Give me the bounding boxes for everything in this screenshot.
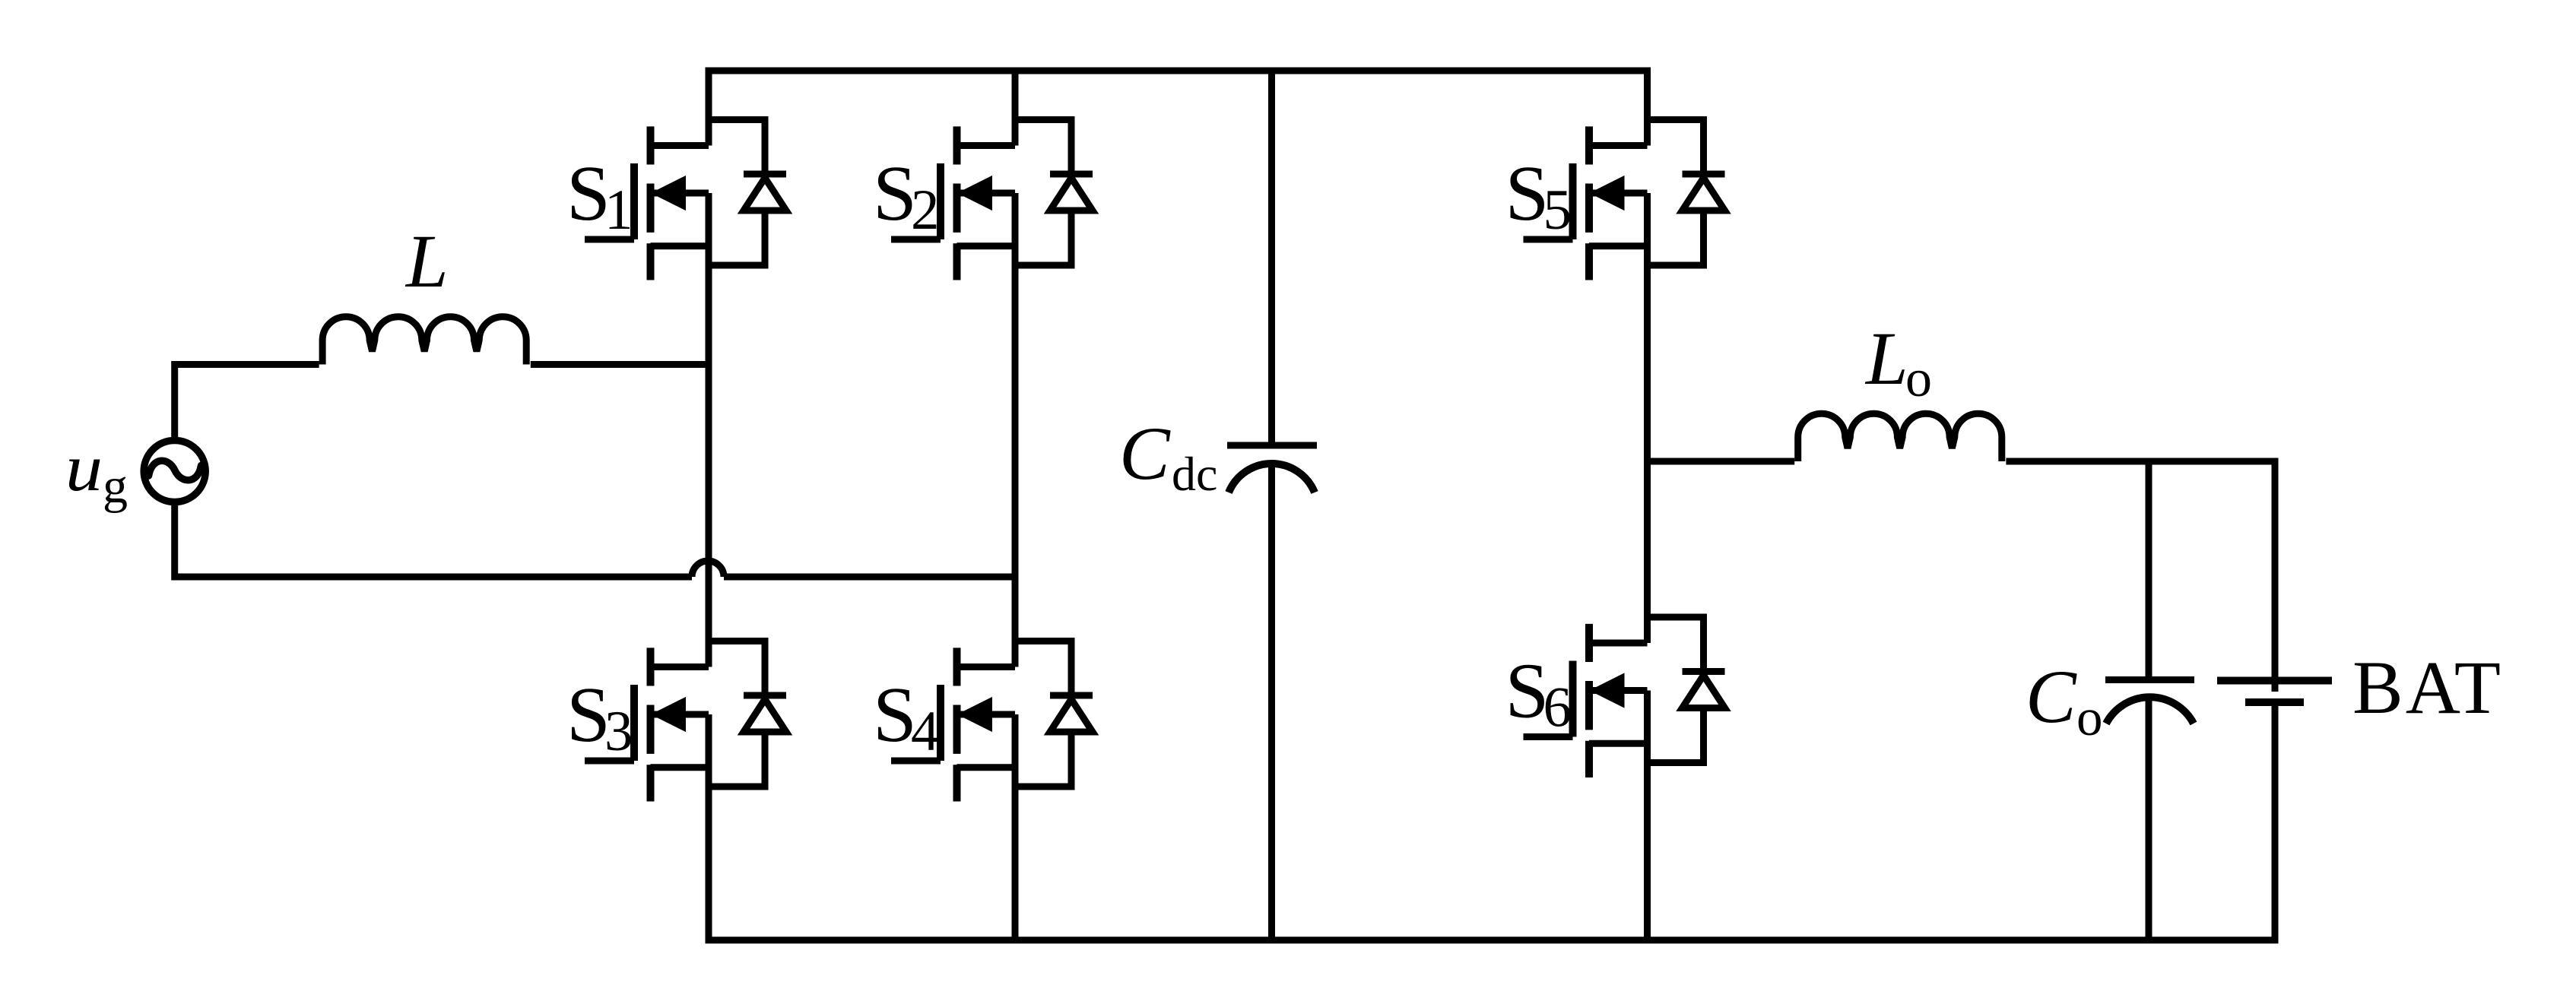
diode of S1 bottom connection bbox=[709, 211, 765, 265]
wire Co top connection bbox=[2146, 461, 2152, 683]
diode of S5 top connection bbox=[1648, 120, 1704, 175]
wire ac source bottom bbox=[175, 501, 692, 577]
diode of S3 bottom connection bbox=[709, 732, 765, 787]
ac source ug circle bbox=[144, 441, 205, 502]
diode of S6 cathode bar bbox=[1683, 668, 1725, 675]
transistor S4 gate bar bbox=[937, 685, 944, 761]
transistor S3 drain lead bbox=[651, 663, 709, 670]
wire S6 source to bottom bus vertical bbox=[1644, 691, 1651, 941]
battery BAT short plate bbox=[2245, 698, 2304, 706]
diode of S2 triangle bbox=[1050, 178, 1093, 211]
svg-text:3: 3 bbox=[604, 700, 633, 763]
wire S5/S6 midpoint to inductor Lo bbox=[1648, 458, 1795, 465]
transistor S4 gate lead bbox=[891, 758, 941, 765]
diode of S1 cathode bar bbox=[744, 171, 786, 178]
transistor S1 gate lead bbox=[585, 236, 634, 243]
wire S5 drain from bus bbox=[1644, 68, 1651, 146]
wire BAT top connection bbox=[2275, 461, 2279, 692]
wire S2 drain from bus bbox=[1012, 71, 1019, 146]
transistor S5 channel segments bbox=[1585, 126, 1593, 280]
inductor L bbox=[322, 317, 526, 365]
transistor S6 gate lead bbox=[1524, 733, 1573, 740]
transistor S6 source lead bbox=[1589, 740, 1648, 747]
capacitor Co curved plate bbox=[2106, 697, 2194, 724]
svg-text:6: 6 bbox=[1543, 676, 1572, 739]
diode of S1 top connection bbox=[709, 120, 765, 175]
svg-text:o: o bbox=[1905, 350, 1932, 408]
transistor S5 gate bar bbox=[1569, 163, 1577, 239]
wire hop to S2/S4 midpoint node B bbox=[724, 574, 1019, 581]
transistor S5 gate lead bbox=[1524, 236, 1573, 243]
diode of S5 bottom connection bbox=[1648, 211, 1704, 265]
wire top dc bus bbox=[709, 68, 1648, 74]
svg-text:L: L bbox=[404, 219, 449, 303]
diode of S1 triangle bbox=[744, 178, 786, 211]
svg-text:dc: dc bbox=[1172, 447, 1217, 501]
wire BAT bottom connection bbox=[2272, 702, 2279, 944]
wire ac source top to inductor L bbox=[175, 365, 319, 442]
diode of S3 top connection bbox=[709, 641, 765, 696]
svg-text:o: o bbox=[2076, 689, 2103, 746]
diode of S6 bottom connection bbox=[1648, 708, 1704, 763]
transistor S5 drain lead bbox=[1589, 142, 1648, 149]
diode of S5 cathode bar bbox=[1683, 171, 1725, 178]
diode of S4 cathode bar bbox=[1050, 692, 1093, 699]
wire S3 source to bottom bus vertical bbox=[706, 714, 712, 944]
wire S2 source to S4 drain vertical bbox=[1012, 193, 1019, 667]
transistor S3 source lead bbox=[651, 764, 709, 771]
transistor S2 channel segments bbox=[953, 126, 961, 280]
wire Cdc top connection bbox=[1268, 71, 1275, 448]
transistor S3 channel segments bbox=[647, 648, 655, 801]
capacitor Cdc curved plate bbox=[1229, 464, 1315, 492]
transistor S1 body arrow bbox=[651, 177, 709, 210]
transistor S4 drain lead bbox=[957, 663, 1016, 670]
svg-text:2: 2 bbox=[911, 179, 940, 242]
inductor Lo bbox=[1798, 413, 2002, 461]
transistor S4 body arrow bbox=[957, 698, 1016, 731]
wire inductor L to bridge midpoint node A bbox=[531, 361, 712, 368]
transistor S4 channel segments bbox=[953, 648, 961, 801]
diode of S6 triangle bbox=[1683, 676, 1725, 708]
wire inductor Lo to output node bbox=[2006, 458, 2278, 465]
transistor S3 gate bar bbox=[630, 685, 638, 761]
svg-text:g: g bbox=[103, 458, 128, 514]
diode of S6 top connection bbox=[1648, 617, 1704, 672]
diode of S5 triangle bbox=[1683, 178, 1725, 211]
transistor S2 gate bar bbox=[937, 163, 944, 239]
transistor S1 source lead bbox=[651, 242, 709, 249]
wire Cdc bottom connection bbox=[1268, 464, 1275, 940]
wire S5 source to S6 drain vertical bbox=[1644, 193, 1651, 643]
transistor S6 body arrow bbox=[1589, 674, 1648, 707]
wire S4 source to bottom bus vertical bbox=[1012, 714, 1019, 940]
transistor S5 source lead bbox=[1589, 242, 1648, 249]
ac source ug sine wave bbox=[149, 461, 201, 480]
diode of S4 triangle bbox=[1050, 699, 1093, 732]
diode of S3 cathode bar bbox=[744, 692, 786, 699]
transistor S4 source lead bbox=[957, 764, 1016, 771]
wire S1 source to S3 drain vertical bbox=[706, 193, 712, 667]
transistor S6 gate bar bbox=[1569, 661, 1577, 737]
transistor S2 drain lead bbox=[957, 142, 1016, 149]
svg-text:BAT: BAT bbox=[2352, 645, 2503, 730]
wire left phase-leg vertical (S1 drain from bus) bbox=[706, 68, 712, 146]
transistor S2 gate lead bbox=[891, 236, 941, 243]
wire hop crossing over left leg bbox=[692, 561, 724, 577]
svg-text:4: 4 bbox=[911, 700, 940, 763]
wire Co bottom connection bbox=[2146, 698, 2152, 940]
transistor S2 body arrow bbox=[957, 177, 1016, 210]
svg-text:C: C bbox=[2026, 654, 2077, 739]
capacitor Cdc top plate bbox=[1227, 442, 1317, 449]
transistor S5 body arrow bbox=[1589, 177, 1648, 210]
diode of S4 top connection bbox=[1015, 641, 1071, 696]
svg-text:L: L bbox=[1864, 316, 1908, 401]
svg-text:C: C bbox=[1119, 411, 1171, 496]
diode of S2 top connection bbox=[1015, 120, 1071, 175]
transistor S2 source lead bbox=[957, 242, 1016, 249]
battery BAT long plate bbox=[2217, 677, 2332, 685]
transistor S3 gate lead bbox=[585, 758, 634, 765]
transistor S3 body arrow bbox=[651, 698, 709, 731]
svg-text:1: 1 bbox=[604, 179, 633, 242]
transistor S1 drain lead bbox=[651, 142, 709, 149]
transistor S6 drain lead bbox=[1589, 640, 1648, 647]
wire bottom dc bus bbox=[706, 937, 2276, 944]
diode of S4 bottom connection bbox=[1015, 732, 1071, 787]
transistor S1 channel segments bbox=[647, 126, 655, 280]
diode of S2 cathode bar bbox=[1050, 171, 1093, 178]
svg-text:u: u bbox=[65, 432, 103, 505]
capacitor Co top plate bbox=[2105, 676, 2194, 683]
svg-text:5: 5 bbox=[1543, 179, 1572, 242]
transistor S6 channel segments bbox=[1585, 624, 1593, 777]
diode of S3 triangle bbox=[744, 699, 786, 732]
diode of S2 bottom connection bbox=[1015, 211, 1071, 265]
transistor S1 gate bar bbox=[630, 163, 638, 239]
